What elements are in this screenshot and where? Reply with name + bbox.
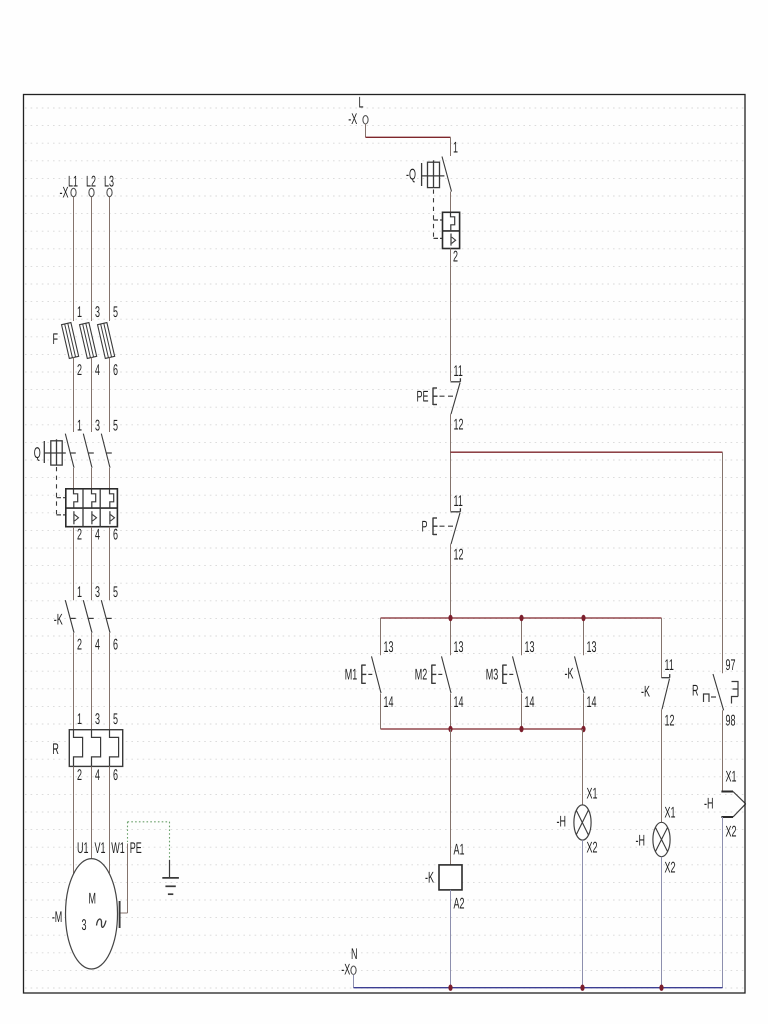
- svg-text:12: 12: [454, 416, 464, 433]
- svg-text:-H: -H: [557, 814, 566, 831]
- svg-text:2: 2: [77, 362, 82, 379]
- svg-text:-Q: -Q: [406, 167, 416, 184]
- svg-text:13: 13: [525, 639, 535, 656]
- svg-text:5: 5: [113, 418, 118, 435]
- svg-text:-H: -H: [636, 833, 645, 850]
- svg-text:-K: -K: [54, 612, 63, 629]
- svg-text:R: R: [692, 683, 698, 700]
- svg-text:4: 4: [95, 767, 100, 784]
- svg-text:2: 2: [453, 249, 458, 266]
- svg-text:2: 2: [77, 527, 82, 544]
- svg-text:-M: -M: [52, 909, 62, 926]
- svg-text:14: 14: [384, 694, 394, 711]
- svg-text:X1: X1: [726, 769, 737, 786]
- svg-text:1: 1: [77, 584, 82, 601]
- svg-text:1: 1: [77, 304, 82, 321]
- svg-text:13: 13: [587, 639, 597, 656]
- svg-text:6: 6: [113, 362, 118, 379]
- svg-text:A2: A2: [454, 896, 465, 913]
- svg-text:3: 3: [95, 584, 100, 601]
- svg-text:P: P: [422, 519, 428, 536]
- svg-text:-K: -K: [425, 870, 434, 887]
- svg-text:12: 12: [454, 546, 464, 563]
- svg-text:3: 3: [95, 304, 100, 321]
- svg-text:-K: -K: [641, 684, 650, 701]
- svg-text:F: F: [53, 331, 58, 348]
- svg-text:A1: A1: [454, 842, 465, 859]
- svg-text:5: 5: [113, 711, 118, 728]
- svg-text:1: 1: [453, 140, 458, 157]
- svg-text:-X: -X: [341, 962, 350, 979]
- svg-text:M2: M2: [415, 667, 427, 684]
- svg-text:14: 14: [525, 694, 535, 711]
- svg-text:PE: PE: [130, 840, 142, 857]
- svg-text:X2: X2: [726, 824, 737, 841]
- svg-text:-X: -X: [348, 111, 357, 128]
- svg-text:PE: PE: [417, 389, 429, 406]
- svg-text:12: 12: [665, 713, 675, 730]
- svg-text:R: R: [52, 741, 58, 758]
- svg-text:Q: Q: [34, 445, 41, 462]
- svg-text:3: 3: [95, 711, 100, 728]
- svg-text:3: 3: [95, 418, 100, 435]
- svg-text:1: 1: [77, 418, 82, 435]
- svg-text:6: 6: [113, 527, 118, 544]
- svg-text:V1: V1: [95, 840, 106, 857]
- svg-text:13: 13: [454, 639, 464, 656]
- svg-text:5: 5: [113, 584, 118, 601]
- svg-text:2: 2: [77, 637, 82, 654]
- svg-text:11: 11: [454, 493, 463, 510]
- svg-text:M: M: [89, 891, 96, 908]
- svg-text:W1: W1: [111, 840, 124, 857]
- svg-text:N: N: [351, 946, 357, 963]
- svg-text:6: 6: [113, 637, 118, 654]
- svg-text:L: L: [359, 95, 364, 112]
- svg-text:4: 4: [95, 637, 100, 654]
- svg-text:98: 98: [726, 713, 736, 730]
- svg-text:97: 97: [726, 657, 736, 674]
- svg-text:14: 14: [587, 694, 597, 711]
- svg-text:13: 13: [384, 639, 394, 656]
- svg-text:M1: M1: [345, 667, 357, 684]
- svg-text:-K: -K: [565, 666, 574, 683]
- svg-text:11: 11: [665, 657, 674, 674]
- svg-text:X2: X2: [665, 860, 676, 877]
- svg-text:M3: M3: [486, 667, 498, 684]
- svg-text:6: 6: [113, 767, 118, 784]
- svg-text:X1: X1: [587, 786, 598, 803]
- svg-text:-X: -X: [60, 185, 69, 202]
- svg-text:4: 4: [95, 527, 100, 544]
- svg-text:2: 2: [77, 767, 82, 784]
- svg-text:4: 4: [95, 362, 100, 379]
- svg-text:14: 14: [454, 694, 464, 711]
- svg-text:1: 1: [77, 711, 82, 728]
- svg-text:5: 5: [113, 304, 118, 321]
- svg-text:11: 11: [454, 363, 463, 380]
- svg-text:X2: X2: [587, 840, 598, 857]
- svg-text:X1: X1: [665, 805, 676, 822]
- svg-text:-H: -H: [704, 796, 713, 813]
- svg-text:3: 3: [81, 917, 86, 934]
- svg-text:U1: U1: [77, 840, 89, 857]
